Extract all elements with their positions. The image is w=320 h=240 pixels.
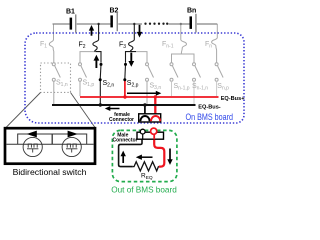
wire Sn-1,n to EQ-Bus- xyxy=(193,81,195,104)
svg-text:Connector: Connector xyxy=(113,137,138,143)
current arrow up at S2,n xyxy=(94,55,100,68)
switch S2,n (closed) xyxy=(99,64,102,79)
leader line right (dotted box to inset) xyxy=(71,93,96,128)
switch S3,n xyxy=(146,63,149,66)
current arrow left on EQ-Bus- xyxy=(105,106,120,111)
MOSFET Q1 bypass loop xyxy=(18,134,53,144)
leader line left (dotted box to inset) xyxy=(6,93,41,128)
fuse Fn-1 xyxy=(181,24,187,54)
switch Sn-1,n xyxy=(193,63,196,66)
wire EQ-Bus- to female connector (black drop) xyxy=(144,105,146,115)
current arrow down right of resistor xyxy=(167,149,172,165)
switch S2,p terminal dots xyxy=(124,63,127,66)
inset main wire xyxy=(7,143,94,145)
fuse Fn xyxy=(212,24,218,63)
bidirectional switch detail box (gray dotted) xyxy=(41,63,71,92)
wire S1,p to EQ-Bus+ xyxy=(79,81,81,96)
junction connector on EQ-Bus- xyxy=(143,103,146,106)
svg-text:Out of BMS board: Out of BMS board xyxy=(111,186,177,195)
female connector body xyxy=(139,114,161,122)
wire ellipsis (continuation dots) xyxy=(144,23,168,25)
fuse F3 xyxy=(129,24,135,52)
switch S1,p xyxy=(79,63,82,66)
MOSFET Q1 body diode arrow (left) xyxy=(27,131,37,138)
female connector black socket xyxy=(140,116,149,121)
current arrow up in R loop xyxy=(121,151,126,163)
wire branch F3 left xyxy=(126,52,137,63)
male connector black pin xyxy=(142,134,144,140)
junction connector on EQ-Bus+ xyxy=(154,95,157,98)
MOSFET Q2 xyxy=(62,137,81,156)
battery B1 xyxy=(70,14,77,32)
fuse F2 xyxy=(93,24,99,52)
wire S2,n to EQ-Bus- xyxy=(99,80,101,104)
svg-text:Bn: Bn xyxy=(187,8,196,15)
wire top cell string xyxy=(53,23,218,25)
EQ-Bus- (black) xyxy=(52,104,196,106)
wire S2,p to EQ-Bus+ (red) xyxy=(124,81,126,97)
battery B2 xyxy=(110,13,118,31)
MOSFET Q2 body diode arrow (right) xyxy=(68,131,78,138)
MOSFET Q1 xyxy=(23,137,42,156)
svg-text:B1: B1 xyxy=(66,9,75,16)
wire branch Fn-1 xyxy=(172,54,195,63)
wire branch F2 right xyxy=(96,52,102,63)
switch S2,n terminal dots xyxy=(100,63,103,66)
wire Sn-1,p to EQ-Bus+ xyxy=(171,81,173,96)
MOSFET Q2 bypass loop xyxy=(52,134,87,144)
wire S3,n to EQ-Bus- xyxy=(146,81,148,104)
wire EQ-Bus+ to female connector (red drop) xyxy=(154,97,156,115)
wire male connector red feed xyxy=(154,139,164,166)
wire branch F2 left xyxy=(80,52,96,63)
svg-text:Connector: Connector xyxy=(109,117,134,123)
fuse F1 xyxy=(49,24,54,63)
female connector red socket xyxy=(151,116,160,121)
switch Sn-1,p xyxy=(170,63,173,66)
wire S1,n to EQ-Bus- xyxy=(53,81,55,104)
wire branch F3 right xyxy=(136,52,147,63)
svg-text:On BMS board: On BMS board xyxy=(186,112,234,122)
junction S2,n on EQ-Bus- xyxy=(99,103,102,106)
switch S2,p (closed) xyxy=(124,64,127,79)
current arrow up at node 2 xyxy=(89,25,94,36)
male connector body xyxy=(137,132,164,139)
male connector red pin xyxy=(153,134,155,140)
switch S1,n xyxy=(52,63,55,66)
junction S2,p on EQ-Bus+ xyxy=(123,95,126,98)
node 3 junction xyxy=(133,23,135,25)
node 2 junction xyxy=(97,23,99,25)
EQ-Bus+ (red) xyxy=(80,96,219,98)
svg-text:B2: B2 xyxy=(110,8,119,15)
current arrow down at S2,p xyxy=(128,53,134,67)
svg-text:EQ-Bus-: EQ-Bus- xyxy=(198,104,221,110)
BMS board boundary (blue dotted) xyxy=(25,33,244,123)
wire male connector black return xyxy=(119,139,142,166)
svg-text:EQ-Bus+: EQ-Bus+ xyxy=(221,96,246,102)
svg-text:Bidirectional switch: Bidirectional switch xyxy=(13,167,87,177)
wire Sn,p to EQ-Bus+ xyxy=(216,81,218,96)
current arrow down at node 3 xyxy=(137,25,142,38)
node n-1 junction xyxy=(180,23,182,25)
resistor R_EQ xyxy=(133,162,159,171)
current arrow right on EQ-Bus+ xyxy=(127,91,161,96)
switch Sn,p xyxy=(215,63,218,66)
inset: bidirectional switch box xyxy=(5,128,95,164)
out of BMS board boundary (green dashed) xyxy=(112,130,176,181)
current arrow left above resistor xyxy=(136,155,153,160)
battery Bn xyxy=(190,14,197,33)
